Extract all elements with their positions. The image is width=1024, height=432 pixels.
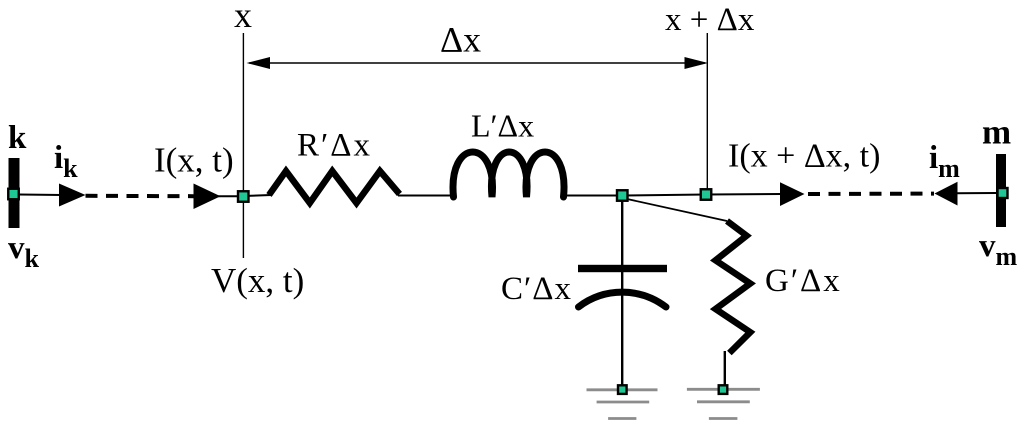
arrow i_k [59,184,86,207]
diagonal wire node2 to G [627,199,727,221]
capacitor top plate [578,265,667,272]
node V(x,t) [238,191,249,202]
svg-text:k: k [8,120,27,156]
svg-text:Δx: Δx [440,20,481,60]
svg-text:I(x, t): I(x, t) [154,141,234,180]
wire arrow to node [218,195,243,197]
wire G to ground [724,351,726,386]
ground B line 3 [709,417,738,420]
dimension arrowhead right [685,57,709,69]
svg-text:vm: vm [979,228,1018,271]
dimension arrowhead left [247,57,271,69]
arrow I(x+dx,t) [780,182,805,206]
svg-text:L′Δx: L′Δx [471,108,534,144]
wire arrow to m bar [956,192,996,194]
svg-text:vk: vk [8,230,40,273]
node square k [8,189,19,200]
dashed wire right [808,192,934,196]
svg-text:x + Δx: x + Δx [665,2,755,38]
resistor R'dx [269,171,400,203]
ground B line 1 [687,388,760,391]
arrow i_m [935,182,958,206]
node square m [998,188,1008,198]
arrow I(x,t) [194,184,221,210]
dimension line [249,62,705,64]
terminal k bar [9,158,20,228]
node at inductor output [617,190,628,201]
ground A line 3 [608,417,636,420]
wire k to arrow [19,194,62,197]
dashed wire left [86,194,195,198]
svg-text:V(x, t): V(x, t) [211,261,304,300]
node at x+dx [701,189,712,200]
svg-text:I(x + Δx, t): I(x + Δx, t) [728,138,880,175]
svg-text:C′Δx: C′Δx [501,271,572,307]
ground A line 1 [587,388,658,391]
wire node2 down to capacitor and ground [621,200,623,386]
wire node to resistor [243,195,271,196]
wire inductor to arrow (through nodes) [563,194,781,196]
ground A line 2 [597,401,650,404]
svg-text:G′Δx: G′Δx [765,263,842,299]
conductance G'dx zigzag [716,221,751,353]
ground B node square [719,385,728,394]
svg-text:R′Δx: R′Δx [297,128,372,164]
capacitor bottom plate (arc) [579,292,667,307]
terminal m bar [996,154,1006,227]
svg-text:m: m [982,113,1011,152]
ground B line 2 [697,400,750,403]
svg-text:im: im [929,140,960,183]
wire resistor to inductor [398,195,455,197]
svg-text:x: x [234,0,252,35]
svg-text:ik: ik [54,140,78,183]
tick line at x+dx [706,33,708,192]
ground A node square [618,385,627,394]
tick line at x [242,33,244,258]
inductor L'dx [453,152,564,197]
